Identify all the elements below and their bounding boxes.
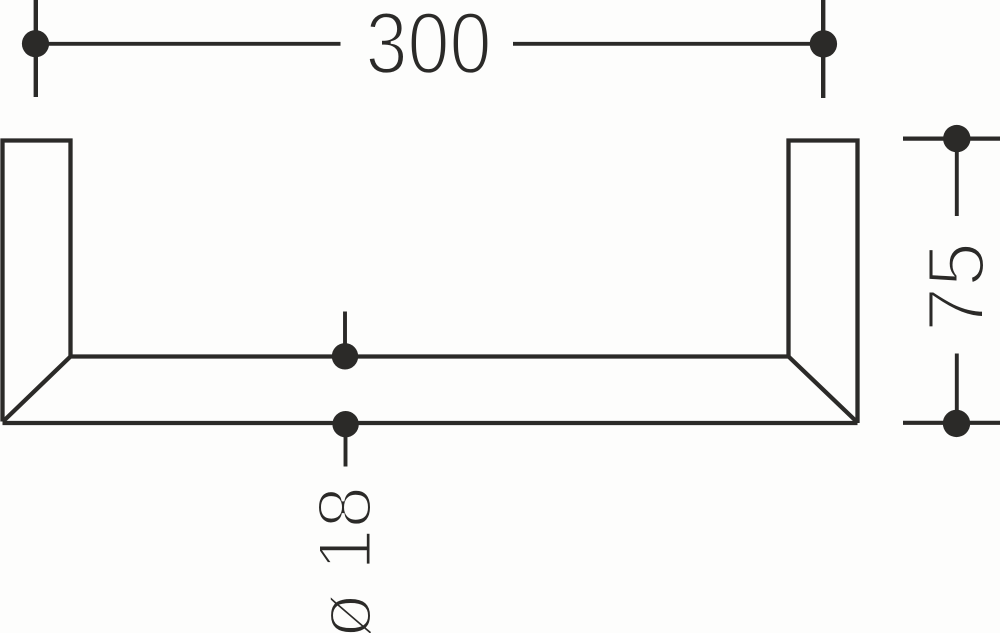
left dot of 300: [22, 30, 49, 57]
right bevel diagonal: [789, 357, 858, 423]
dimension line 300 left segment: [36, 42, 341, 46]
bottom dot of 75: [943, 410, 970, 437]
svg-text:75: 75: [912, 242, 1000, 332]
dimension line 75 lower segment: [955, 354, 959, 424]
bar top edge: [71, 354, 789, 358]
bar bottom edge: [3, 421, 858, 425]
top dot of 75: [943, 125, 970, 152]
lower tick of diameter callout: [344, 424, 348, 467]
svg-text:300: 300: [366, 0, 492, 92]
right post outline: [789, 141, 858, 424]
left post outline: [3, 141, 71, 422]
right extension tick of 300: [821, 0, 825, 98]
left bevel diagonal: [3, 357, 71, 422]
dimension line 75 upper segment: [955, 139, 959, 216]
upper tick of diameter callout: [343, 312, 347, 345]
top extension tick of 75: [903, 137, 1000, 141]
svg-text:ø 18: ø 18: [303, 486, 388, 633]
right dot of 300: [810, 30, 837, 57]
upper dot of diameter callout: [332, 343, 358, 369]
dimension line 300 right segment: [513, 42, 823, 46]
bottom extension tick of 75: [903, 421, 1000, 425]
lower dot of diameter callout: [332, 411, 358, 437]
left extension tick of 300: [34, 0, 38, 97]
